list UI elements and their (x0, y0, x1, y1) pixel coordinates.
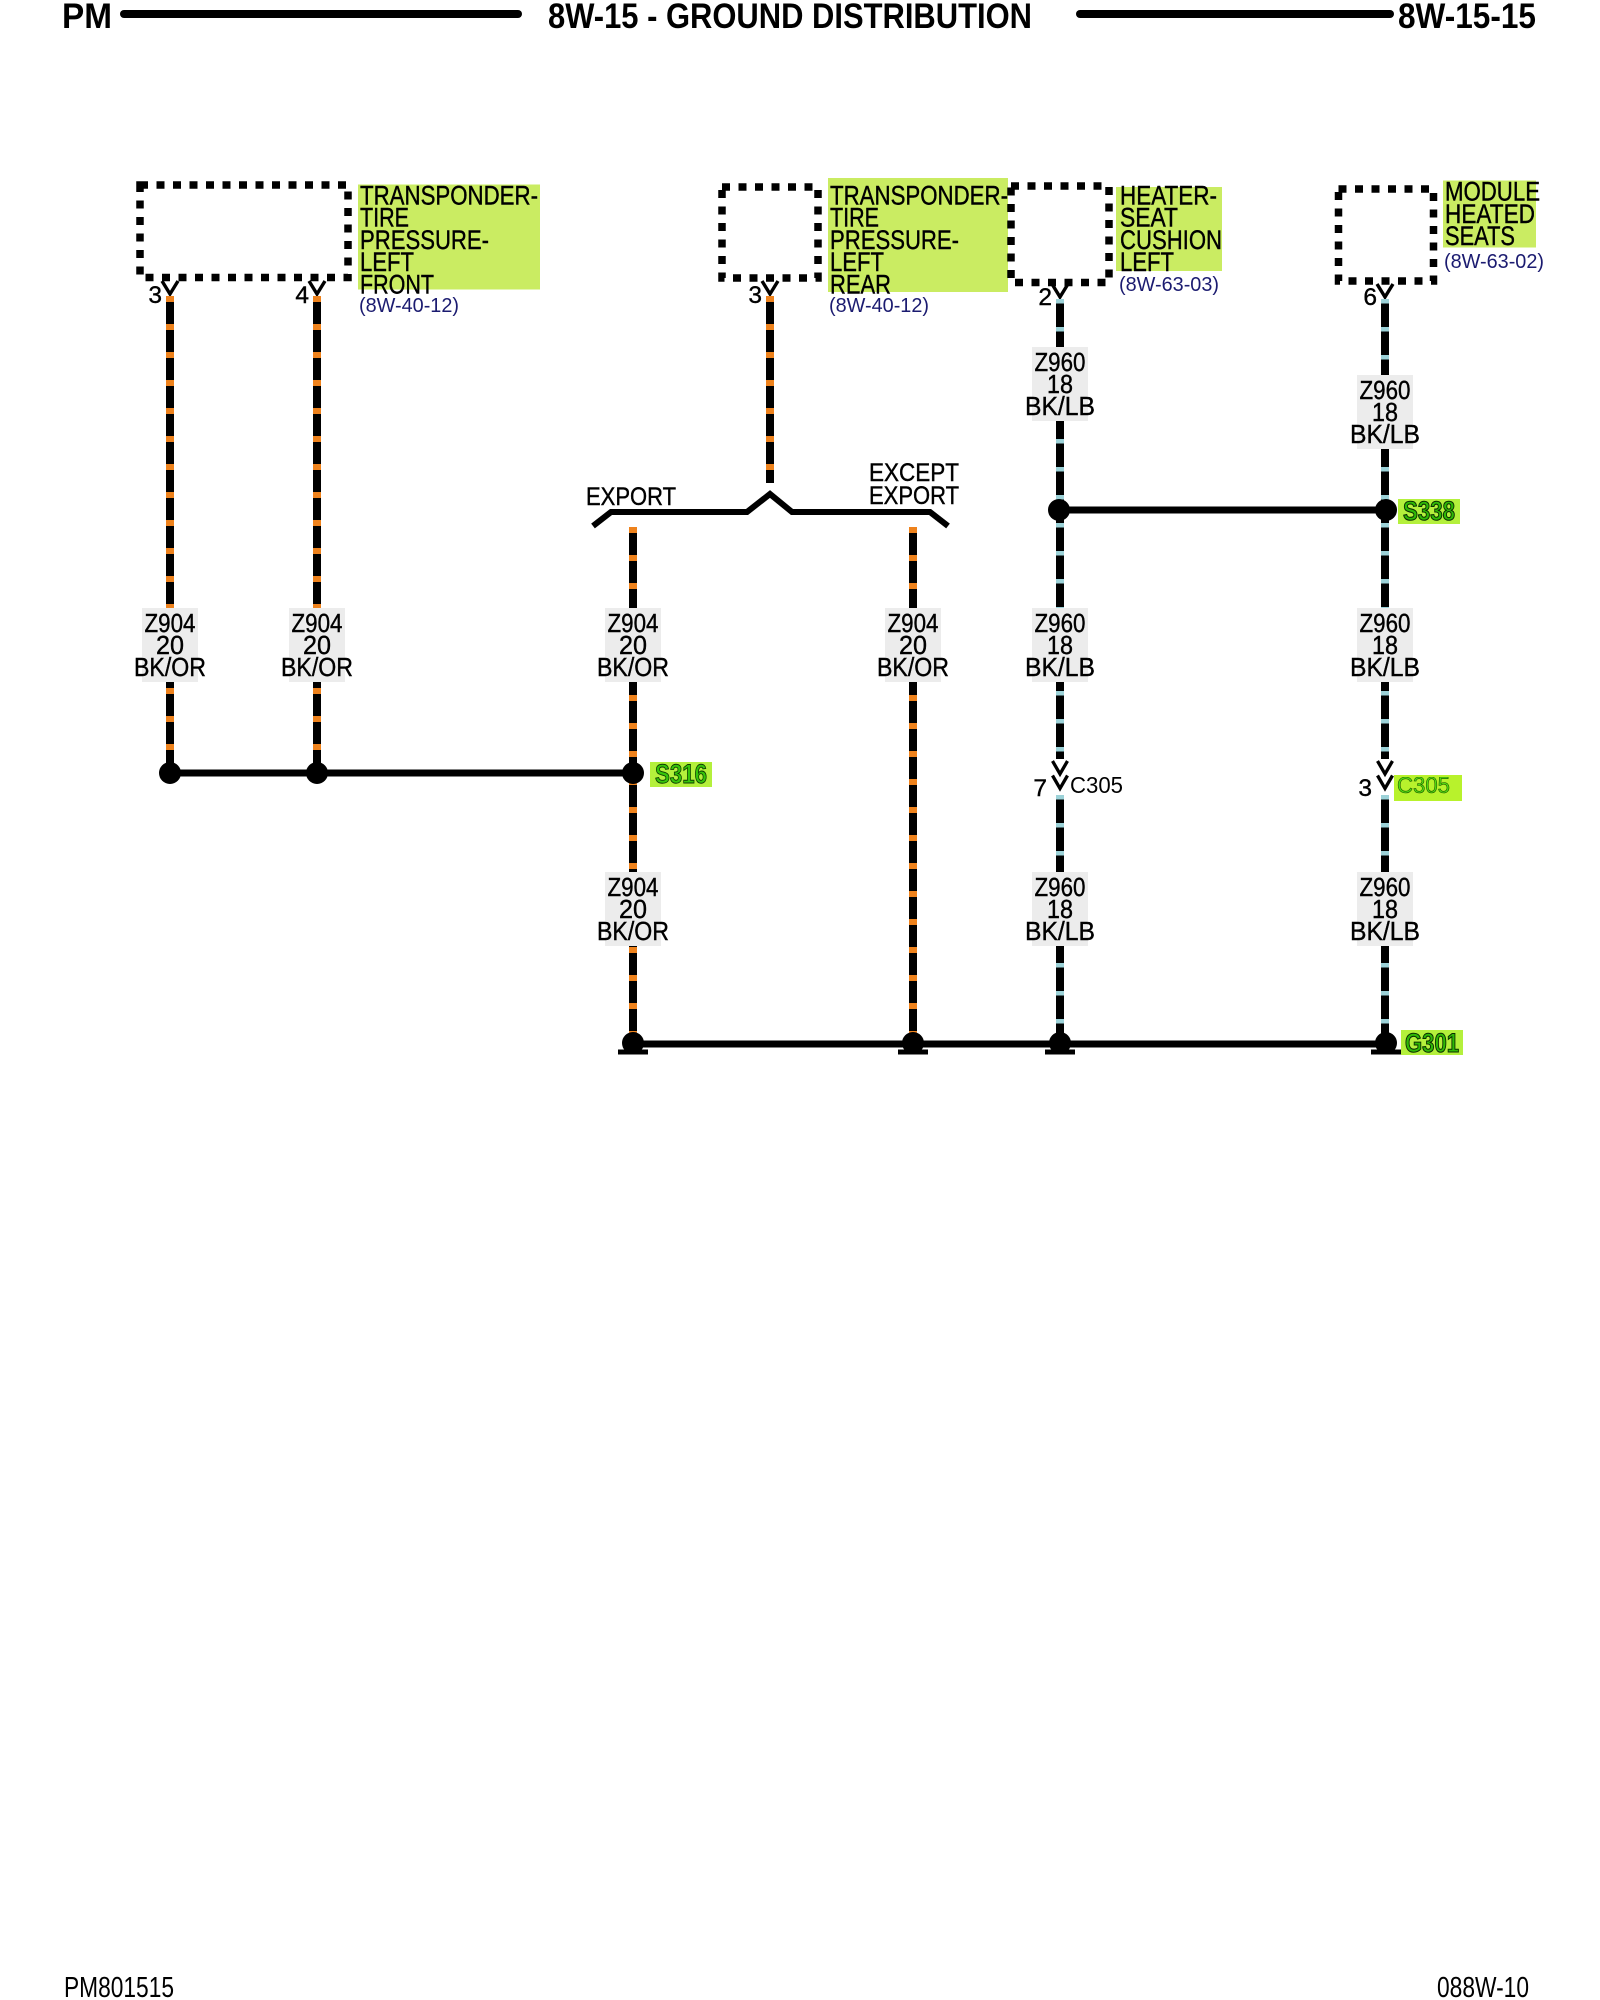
wire Z904 export branch (BK/OR) (629, 527, 637, 1041)
svg-text:6: 6 (1363, 284, 1377, 311)
wire label Z960 18 BK/LB col5 lower (1025, 872, 1095, 946)
svg-text:3: 3 (148, 282, 162, 309)
svg-text:BK/LB: BK/LB (1025, 652, 1095, 682)
wire Z960 heater-seat (BK/LB) upper (1056, 299, 1064, 759)
svg-text:BK/LB: BK/LB (1350, 652, 1420, 682)
connector box transponder-tire pressure-left rear (722, 187, 818, 278)
svg-text:BK/OR: BK/OR (877, 652, 949, 682)
svg-text:8W-15-15: 8W-15-15 (1398, 0, 1536, 36)
wire Z904 pin4 left-front (BK/OR) (313, 296, 321, 771)
svg-text:BK/LB: BK/LB (1025, 391, 1095, 421)
splice S338 bus (1058, 507, 1387, 514)
ground symbol export branch (618, 1032, 648, 1055)
wire label Z904 20 BK/OR export branch (597, 608, 669, 682)
wire label Z904 20 BK/OR col2 (281, 608, 353, 682)
header rule left (124, 10, 518, 18)
svg-text:C305: C305 (1070, 772, 1123, 798)
wire label Z904 20 BK/OR col1 (134, 608, 206, 682)
svg-text:(8W-63-02): (8W-63-02) (1444, 251, 1544, 273)
svg-text:3: 3 (748, 282, 762, 309)
header title-block (62, 0, 1536, 36)
wire label Z960 18 BK/LB col6 mid (1350, 608, 1420, 682)
svg-text:3: 3 (1358, 775, 1372, 802)
svg-text:8W-15 - GROUND DISTRIBUTION: 8W-15 - GROUND DISTRIBUTION (548, 0, 1032, 36)
svg-text:PM: PM (62, 0, 112, 36)
svg-text:4: 4 (295, 282, 309, 309)
ground G301 bus (629, 1041, 1388, 1048)
label block transponder-tire pressure-left front (358, 181, 540, 318)
junction dot S316 col2 (306, 762, 328, 784)
svg-text:BK/OR: BK/OR (281, 652, 353, 682)
svg-text:SEATS: SEATS (1445, 221, 1515, 251)
svg-text:(8W-63-03): (8W-63-03) (1119, 274, 1219, 296)
ground symbol module wire (1371, 1032, 1401, 1055)
ground symbol except-export branch (898, 1032, 928, 1055)
connector box module heated seats (1339, 189, 1434, 281)
ground label G301 (1401, 1028, 1463, 1058)
splice label S316 (650, 759, 712, 789)
splice label S338 (1398, 496, 1460, 526)
ground symbol heater-seat wire (1045, 1032, 1075, 1055)
svg-text:EXPORT: EXPORT (586, 483, 676, 511)
label EXCEPT EXPORT (869, 459, 959, 510)
wire label Z904 20 BK/OR export branch lower (597, 872, 669, 946)
svg-text:G301: G301 (1405, 1028, 1459, 1058)
svg-text:EXPORT: EXPORT (869, 482, 959, 510)
pin 3 of left-front transponder (148, 281, 178, 309)
wire Z904 pin3 left-rear stub (BK/OR) (766, 296, 774, 483)
junction dot S338 right (1375, 499, 1397, 521)
wire Z904 except-export branch (BK/OR) (909, 527, 917, 1041)
svg-text:(8W-40-12): (8W-40-12) (829, 295, 929, 317)
pin 6 of module heated seats (1363, 284, 1393, 311)
inline connector C305 pin3 (1358, 761, 1462, 802)
junction dot S316 col1 (159, 762, 181, 784)
svg-text:BK/OR: BK/OR (134, 652, 206, 682)
connector box heater-seat cushion left (1011, 186, 1109, 283)
pin 3 of left-rear transponder (748, 281, 778, 309)
svg-text:BK/LB: BK/LB (1350, 419, 1420, 449)
inline connector C305 pin7 (1033, 761, 1123, 802)
svg-text:BK/LB: BK/LB (1025, 916, 1095, 946)
wire label Z960 18 BK/LB col6 lower (1350, 872, 1420, 946)
svg-text:(8W-40-12): (8W-40-12) (359, 295, 459, 317)
svg-text:7: 7 (1033, 775, 1047, 802)
wire label Z904 20 BK/OR except-export branch (877, 608, 949, 682)
brace export split (593, 494, 948, 526)
junction dot S316 export branch (622, 762, 644, 784)
svg-text:S338: S338 (1403, 496, 1455, 526)
label block transponder-tire pressure-left rear (828, 178, 1008, 317)
pin 4 of left-front transponder (295, 281, 325, 309)
svg-text:2: 2 (1038, 284, 1052, 311)
svg-text:BK/OR: BK/OR (597, 652, 669, 682)
svg-text:LEFT: LEFT (1120, 247, 1174, 277)
wire Z960 module heated seats (BK/LB) lower (1381, 795, 1389, 1041)
label block module heated seats (1443, 177, 1544, 274)
wire label Z960 18 BK/LB col5 mid (1025, 608, 1095, 682)
connector box transponder-tire pressure-left front (140, 185, 348, 278)
svg-text:BK/LB: BK/LB (1350, 916, 1420, 946)
label block heater-seat cushion left (1116, 181, 1222, 297)
wire label Z960 18 BK/LB col5 upper (1025, 347, 1095, 421)
svg-text:S316: S316 (655, 759, 707, 789)
wire Z904 pin3 left-front (BK/OR) (166, 296, 174, 771)
splice S316 bus (167, 770, 634, 777)
wire Z960 module heated seats (BK/LB) upper (1381, 299, 1389, 759)
svg-text:PM801515: PM801515 (64, 1972, 174, 2000)
svg-text:BK/OR: BK/OR (597, 916, 669, 946)
header rule right (1080, 10, 1390, 18)
wire Z960 heater-seat (BK/LB) lower (1056, 795, 1064, 1041)
svg-text:088W-10: 088W-10 (1437, 1972, 1529, 2000)
junction dot S338 left (1048, 499, 1070, 521)
wire label Z960 18 BK/LB col6 upper (1350, 375, 1420, 449)
pin 2 of heater-seat cushion left (1038, 284, 1068, 311)
